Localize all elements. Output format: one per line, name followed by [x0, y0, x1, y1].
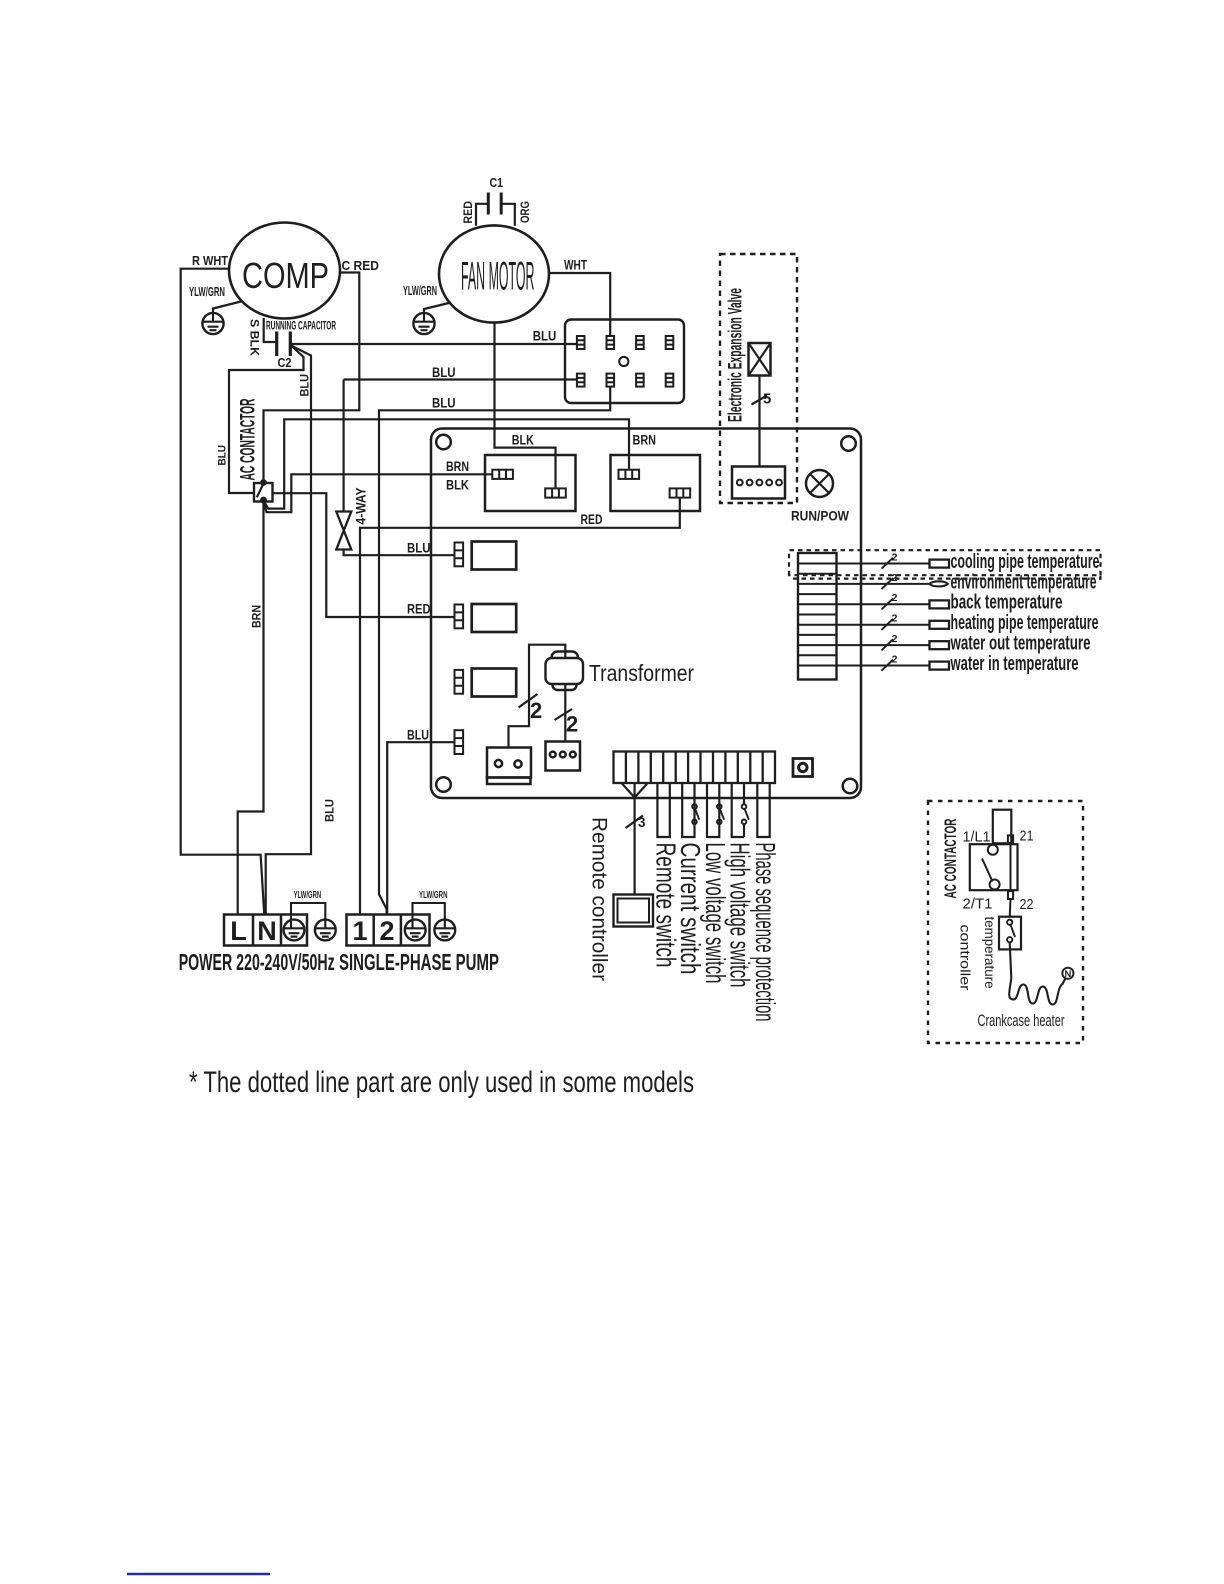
- ground fan motor: [413, 313, 434, 334]
- AC contactor box: [254, 483, 273, 502]
- svg-text:environment temperature: environment temperature: [951, 571, 1097, 593]
- fan motor: [439, 225, 549, 322]
- low voltage switch loop: [707, 783, 719, 837]
- svg-text:cooling pipe temperature: cooling pipe temperature: [951, 551, 1100, 573]
- relay K2 box: [611, 455, 701, 511]
- sensor wires: [837, 558, 930, 671]
- svg-text:BRN: BRN: [446, 459, 469, 474]
- svg-text:BLK: BLK: [446, 478, 469, 493]
- wire YLW/GRN comp ground: [213, 302, 241, 314]
- remote switch loop: [657, 783, 669, 837]
- pcb left boxes: [472, 542, 517, 697]
- 4-way valve bottom lead BLU to pcb conn1: [344, 550, 455, 556]
- terminal block pins: [577, 336, 673, 387]
- high voltage switch loop: [732, 783, 744, 837]
- svg-text:controller: controller: [958, 925, 973, 992]
- 4-way valve symbol: [336, 512, 351, 550]
- svg-text:BLU: BLU: [298, 374, 312, 397]
- ground external pump: [434, 920, 455, 941]
- capacitor C2: [277, 332, 291, 357]
- relay K2 top connector: [619, 470, 640, 479]
- contactor bottom junction dot: [260, 497, 267, 504]
- svg-text:temperature: temperature: [982, 917, 997, 989]
- svg-text:COMP: COMP: [242, 255, 329, 296]
- svg-text:2: 2: [892, 633, 898, 645]
- relay K1 box: [485, 455, 576, 511]
- 4-way valve top lead: [343, 380, 345, 512]
- bottom comb connector: [614, 752, 776, 784]
- pump terminal block 1 2: [347, 915, 430, 946]
- slash 2 right: [555, 709, 573, 720]
- ground external LN: [315, 920, 336, 941]
- svg-text:YLW/GRN: YLW/GRN: [419, 889, 448, 901]
- wire BLU pcb conn4 to pump 2: [387, 742, 454, 913]
- sensor ladder connector: [798, 553, 837, 680]
- svg-text:Electronic Expansion Valve: Electronic Expansion Valve: [726, 288, 747, 422]
- relay K1 bottom connector: [545, 488, 566, 497]
- svg-text:4-WAY: 4-WAY: [353, 487, 369, 525]
- svg-text:C1: C1: [490, 175, 504, 190]
- EEV slash 5: [752, 396, 768, 405]
- wire BLK fan bottom to relay1: [495, 323, 556, 489]
- module coil rect: [993, 810, 1012, 844]
- power terminal block L N: [224, 915, 307, 946]
- svg-text:POWER 220-240V/50Hz: POWER 220-240V/50Hz: [179, 949, 335, 975]
- svg-text:2: 2: [892, 592, 898, 604]
- transformer top wire to 2pin box: [509, 645, 566, 748]
- svg-text:2/T1: 2/T1: [963, 896, 993, 913]
- svg-text:L: L: [230, 916, 247, 946]
- module dashed box: [928, 801, 1083, 1043]
- svg-text:BLU: BLU: [432, 395, 456, 411]
- ground in pump block: [405, 920, 426, 941]
- phase sequence loop: [757, 783, 769, 837]
- wire C2 to contactor loop: [229, 346, 304, 494]
- remote controller box: [614, 895, 654, 927]
- svg-text:heating pipe temperature: heating pipe temperature: [951, 612, 1099, 634]
- svg-text:2: 2: [892, 653, 898, 665]
- svg-text:N: N: [1065, 969, 1072, 980]
- wire contactor to relay2 BRN: [264, 419, 630, 508]
- svg-text:BRN: BRN: [633, 433, 657, 448]
- wire environment sensor: [837, 583, 930, 585]
- wire water out sensor: [837, 644, 930, 646]
- svg-text:Phase sequence protection: Phase sequence protection: [750, 843, 781, 1022]
- EEV dashed box: [720, 254, 797, 503]
- svg-text:1/L1: 1/L1: [963, 829, 991, 846]
- high voltage switch contact: [742, 804, 749, 824]
- wire C RED: [264, 273, 360, 481]
- svg-text:AC CONTACTOR: AC CONTACTOR: [237, 399, 260, 481]
- relay K1 left connector: [492, 470, 690, 498]
- svg-text:YLW/GRN: YLW/GRN: [189, 285, 225, 299]
- svg-text:N: N: [257, 916, 277, 946]
- svg-text:2: 2: [892, 551, 898, 563]
- low voltage switch contact: [717, 804, 724, 824]
- capacitor C1 leads: [476, 204, 515, 226]
- wire heating pipe sensor: [837, 624, 930, 626]
- svg-text:SINGLE-PHASE PUMP: SINGLE-PHASE PUMP: [339, 949, 499, 975]
- slash 2 left: [519, 694, 538, 708]
- wire cooling pipe sensor: [837, 563, 930, 565]
- wire contactor right to RED connector: [273, 493, 455, 617]
- sensor terminal lugs: [930, 560, 950, 670]
- transformer symbol: [546, 652, 584, 691]
- heater N circle: [1062, 968, 1073, 979]
- wire RED relay2 branch to pump 1: [360, 498, 680, 915]
- sensor slashes: [882, 558, 894, 671]
- contactor top junction dot: [260, 479, 267, 486]
- sensor dashed box 1: [789, 550, 1101, 575]
- svg-text:back temperature: back temperature: [951, 592, 1063, 614]
- current switch contact: [692, 804, 699, 824]
- push button component: [793, 759, 813, 777]
- svg-text:1: 1: [352, 916, 367, 946]
- RUN/POW lamp: [806, 470, 833, 497]
- svg-text:water out temperature: water out temperature: [950, 633, 1091, 655]
- svg-text:BLU: BLU: [533, 328, 557, 344]
- remote controller V wire: [622, 783, 648, 895]
- module contactor box: [970, 844, 1018, 890]
- svg-text:YLW/GRN: YLW/GRN: [403, 284, 437, 298]
- module contactor contacts: [982, 845, 1000, 890]
- wire BRN contactor to L: [238, 502, 264, 915]
- wire WHT fan to terminal block: [549, 273, 610, 336]
- 3-pin connector box: [546, 742, 581, 771]
- svg-text:BRN: BRN: [250, 605, 264, 628]
- svg-text:BLU: BLU: [432, 364, 456, 380]
- svg-text:S BLK: S BLK: [248, 319, 260, 357]
- transformer bottom wire to 3pin box: [564, 684, 566, 742]
- svg-text:2: 2: [892, 613, 898, 625]
- EEV wire: [758, 376, 760, 467]
- pcb left connectors CN1-CN4: [455, 543, 464, 755]
- svg-text:2: 2: [530, 698, 542, 723]
- svg-text:5: 5: [763, 391, 771, 408]
- wire BLU2 to terminal block bottom pin1: [344, 378, 577, 380]
- bottom blue rule: [127, 1573, 270, 1576]
- sensor dashed box 2: [793, 575, 1101, 578]
- wire BLU C2 south to N: [266, 346, 311, 914]
- ground in LN block: [284, 920, 305, 941]
- crankcase heater coil: [1009, 942, 1065, 1004]
- contactor blade: [257, 484, 264, 498]
- current switch loop: [682, 783, 694, 837]
- ground comp: [202, 313, 223, 334]
- svg-text:FAN MOTOR: FAN MOTOR: [461, 255, 535, 299]
- compressor COMP: [229, 223, 340, 319]
- capacitor C1 plates: [488, 193, 501, 215]
- wire YLW/GRN fan ground: [424, 303, 451, 314]
- wire back sensor: [837, 603, 930, 605]
- svg-text:YLW/GRN: YLW/GRN: [294, 889, 322, 901]
- wire BLU3 terminal pin2 to pump 2: [379, 387, 610, 914]
- pcb mounting holes: [436, 435, 451, 450]
- svg-text:RED: RED: [407, 601, 431, 617]
- wire S BLK: [264, 318, 277, 342]
- svg-text:RUNNING CAPACITOR: RUNNING CAPACITOR: [266, 319, 336, 333]
- terminal block center hole: [619, 357, 628, 366]
- terminal block: [565, 320, 684, 404]
- svg-text:R WHT: R WHT: [192, 253, 228, 268]
- svg-text:ORG: ORG: [518, 201, 532, 223]
- main PCB board: [431, 429, 861, 799]
- svg-text:RUN/POW: RUN/POW: [791, 508, 850, 524]
- svg-text:2: 2: [566, 712, 578, 737]
- EEV valve symbol: [749, 343, 771, 376]
- relay K2 bottom connector: [670, 488, 691, 497]
- svg-text:2: 2: [379, 916, 394, 946]
- svg-text:RED: RED: [461, 201, 475, 224]
- svg-text:Transformer: Transformer: [589, 660, 694, 686]
- temperature controller box: [999, 917, 1021, 950]
- svg-text:* The dotted line part are onl: * The dotted line part are only used in …: [189, 1066, 694, 1099]
- svg-text:water in temperature: water in temperature: [950, 653, 1079, 675]
- wire contactor to relay1 BRN/BLK: [264, 474, 493, 512]
- module 21-22 line: [1008, 835, 1013, 916]
- svg-text:BLU: BLU: [217, 445, 229, 466]
- svg-text:BLU: BLU: [407, 540, 431, 556]
- svg-text:RED: RED: [581, 512, 603, 527]
- remote slash 3: [626, 816, 644, 829]
- svg-text:AC CONTACTOR: AC CONTACTOR: [941, 819, 960, 899]
- wire BLU C2 to terminal block: [290, 343, 577, 345]
- svg-text:3: 3: [638, 815, 646, 830]
- wire R WHT: [181, 269, 265, 914]
- temperature controller contacts: [1007, 920, 1015, 943]
- svg-text:Crankcase heater: Crankcase heater: [978, 1011, 1065, 1030]
- EEV 5-pin connector: [732, 467, 785, 499]
- svg-text:WHT: WHT: [564, 258, 588, 273]
- svg-text:Remote controller: Remote controller: [588, 817, 611, 981]
- svg-text:21: 21: [1020, 828, 1034, 845]
- svg-text:BLK: BLK: [512, 433, 534, 448]
- YLW/GRN hook LN: [291, 903, 325, 928]
- svg-text:2: 2: [892, 572, 898, 584]
- svg-text:22: 22: [1020, 896, 1034, 913]
- 2-pin connector box: [487, 748, 531, 785]
- svg-text:BLU: BLU: [323, 799, 337, 822]
- sensor 2 labels: [892, 551, 898, 665]
- wire water in sensor: [837, 665, 930, 667]
- svg-text:C2: C2: [278, 355, 292, 370]
- svg-text:BLU: BLU: [407, 727, 429, 743]
- terminal letters: [230, 916, 394, 946]
- YLW/GRN hook pump: [413, 903, 445, 928]
- svg-text:C RED: C RED: [342, 258, 380, 273]
